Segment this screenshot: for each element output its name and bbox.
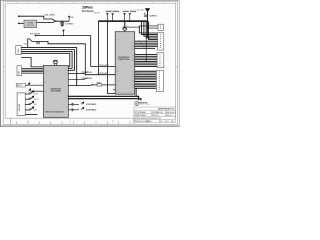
rail stub to mesh (146, 21, 148, 37)
title block cell label texts (134, 106, 157, 121)
ground (C1) (60, 25, 64, 27)
wires MCU to connector J7 (135, 71, 157, 88)
wires MCU to connector J6 (135, 55, 157, 67)
svg-text:PETH_RXD1: PETH_RXD1 (82, 78, 93, 80)
svg-text:SH 1: SH 1 (160, 121, 163, 123)
net MDC right segment into MCU (85, 74, 115, 76)
svg-text:PB1: PB1 (132, 57, 135, 59)
svg-text:MDIO: MDIO (65, 67, 68, 69)
power arrow VREF (128, 13, 131, 15)
label box (MAC addr) (16, 83, 25, 87)
net MDIO right segment into MCU (91, 66, 116, 68)
rail drop to MCU (124, 21, 126, 27)
svg-text:TXD1: TXD1 (116, 79, 119, 81)
power labels row (VBAT VREF) (123, 11, 129, 12)
svg-text:PC7: PC7 (132, 83, 135, 85)
connector J6 (157, 53, 164, 68)
title block value texts (135, 108, 175, 123)
title block table (134, 107, 176, 123)
top margin column ticks (17, 2, 176, 4)
JTAG connector J4 (17, 93, 25, 115)
screenshot edge shading (0, 0, 180, 2)
svg-text:EXPERT HW DESIGN: EXPERT HW DESIGN (139, 104, 151, 106)
svg-text:CONN: CONN (18, 48, 20, 54)
svg-text:REV 1.0: REV 1.0 (147, 121, 152, 123)
sheet background (0, 0, 180, 127)
connector J5 (158, 33, 164, 50)
svg-text:VCC3V3: VCC3V3 (137, 9, 143, 11)
inner border (5, 4, 175, 119)
power labels row (VDD VDDA) (106, 11, 112, 12)
svg-text:TXP: TXP (44, 69, 46, 71)
crystal Y1 above MCU (123, 27, 128, 32)
wire xtal net (19, 16, 69, 21)
svg-text:PC2: PC2 (132, 74, 135, 76)
outer border (3, 2, 177, 125)
svg-text:PC3: PC3 (132, 76, 135, 78)
staircase wire from J1 pin1 (28, 39, 86, 75)
U1 pin labels right column (131, 41, 134, 89)
junction node (62, 21, 63, 22)
svg-text:0.1UF/16V: 0.1UF/16V (65, 23, 74, 25)
svg-text:RXN: RXN (44, 74, 47, 76)
svg-text:PB3: PB3 (132, 60, 135, 62)
resistor R2 (strap series) (37, 42, 40, 44)
power arrow VBAT (123, 13, 126, 15)
svg-text:PC5: PC5 (132, 80, 135, 82)
connector J7 (156, 70, 163, 91)
svg-text:RXD1: RXD1 (116, 68, 119, 70)
power flag VCC (osc input) (18, 22, 20, 24)
svg-text:TXD0: TXD0 (116, 73, 119, 75)
mesh vertical feeders to connector J5 (139, 21, 157, 39)
svg-text:(Block Diagram): (Block Diagram) (82, 10, 94, 13)
U1 pin labels left column (116, 39, 120, 92)
svg-text:28PINS PROJECT V1.0: 28PINS PROJECT V1.0 (159, 108, 175, 110)
svg-text:LED1: LED1 (44, 82, 47, 84)
U2 pin labels right (65, 67, 68, 108)
power rail VCC3V3 (98, 20, 147, 22)
svg-text:MDC: MDC (65, 69, 68, 71)
PHY bottom stubs to RMII bus (68, 96, 70, 98)
bus wires from J1 (staircase down to PHY pins) (21, 48, 77, 86)
svg-text:OSC: OSC (116, 39, 119, 41)
wire from crystal bar to mesh (127, 26, 139, 28)
svg-text:OF 1: OF 1 (166, 121, 169, 123)
svg-text:VCC3V3: VCC3V3 (94, 13, 100, 15)
svg-text:VCC: VCC (24, 44, 27, 46)
svg-text:PB12: PB12 (116, 89, 119, 91)
oscillator X1 25MHz (24, 20, 37, 28)
net REFCLK with series resistor into MCU (91, 84, 93, 86)
arrow glyph on LED wire (28, 82, 30, 85)
inter-chip net RXD0 (left segment with jumper) (68, 72, 87, 74)
inter-chip net TXEN left segment (68, 84, 91, 86)
svg-text:TXEN: TXEN (116, 85, 119, 87)
wire J1 pin5 to PHY top-left (21, 58, 43, 67)
power flag (C2) (82, 102, 85, 105)
svg-text:TXN: TXN (44, 71, 46, 73)
svg-text:PC6: PC6 (132, 81, 135, 83)
side row ticks (3, 66, 5, 68)
RMII bus wire 1 (68, 96, 138, 100)
svg-text:PC1: PC1 (132, 73, 135, 75)
svg-text:PC4: PC4 (132, 78, 135, 80)
connector J2 (magnetics side) (17, 66, 22, 76)
U1 left pin stub PB12 (113, 89, 115, 91)
wires J2 to PHY (22, 69, 44, 74)
net flag left end (34, 35, 36, 37)
connector J1 (16, 46, 21, 55)
capacitor C1 (60, 21, 64, 25)
wire MAC box to PHY (25, 84, 43, 86)
svg-text:RXD0: RXD0 (116, 66, 119, 68)
svg-text:PC0: PC0 (132, 71, 135, 73)
svg-text:NRST: NRST (34, 104, 38, 106)
wires MCU to J5 lower pins (135, 41, 158, 48)
crystal Y2 above PHY (53, 60, 58, 65)
svg-text:25 MHZ: 25 MHZ (27, 23, 33, 25)
connector J8 (small top) (158, 24, 164, 30)
svg-text:SWDIO: SWDIO (34, 94, 38, 96)
bottom margin zone numerals (28, 120, 114, 124)
svg-text:PB2: PB2 (132, 58, 135, 60)
frame group placeholder (3, 2, 177, 125)
svg-text:PETH_RXD0: PETH_RXD0 (82, 72, 93, 74)
svg-text:PC8: PC8 (132, 85, 135, 87)
capacitor C4 (bulk) (144, 14, 147, 17)
JTAG pin wires with pull-up power flags (25, 90, 37, 114)
svg-text:LED2: LED2 (44, 91, 47, 93)
wires to J8 (139, 21, 158, 28)
power flag VCC (xtal net) (18, 15, 20, 17)
svg-text:REF: REF (65, 107, 68, 109)
FEDEVEL logo mark (135, 102, 138, 106)
rail drop left (97, 21, 99, 75)
svg-text:RXP: RXP (44, 72, 47, 74)
power flag (C3) (82, 107, 85, 110)
svg-text:2022-01-10: 2022-01-10 (152, 115, 159, 117)
supply drop to MCU bottom pins (107, 21, 115, 93)
vertical feeder crossing to J6 (145, 38, 147, 62)
capacitor C2 (PHY decoupling) (68, 103, 79, 106)
svg-text:OSC 2520: OSC 2520 (27, 25, 35, 27)
power arrow VDD (106, 13, 109, 15)
svg-text:SWD HDR: SWD HDR (19, 103, 21, 111)
capacitor C3 (PHY decoupling) (68, 108, 79, 111)
wire osc output with jumper (37, 21, 57, 23)
U2 pin labels left (44, 69, 47, 93)
RMII bus wire 2 (68, 99, 141, 101)
svg-text:PC9: PC9 (132, 86, 135, 88)
wire to PHY LED2 (31, 90, 44, 92)
inter-chip net RXD1 (left segment with jumper) (68, 78, 87, 80)
net flag up at node (68, 17, 70, 21)
power arrow VDDA (111, 13, 114, 15)
svg-text:10UF/25V: 10UF/25V (149, 16, 157, 18)
MCU U1 AT32F437 body (115, 32, 135, 94)
svg-text:28Pins: 28Pins (82, 5, 93, 9)
svg-text:TIME 10:25: TIME 10:25 (166, 115, 173, 117)
bottom margin column ticks (11, 118, 134, 124)
svg-text:SWCLK: SWCLK (34, 99, 39, 101)
power arrow mid (PHY supply) (62, 30, 65, 32)
PHY U2 LAN8720AI body (43, 66, 68, 118)
drop from J7 bus to RMII bus (135, 88, 137, 96)
wire strap net to PHY column (36, 36, 91, 67)
svg-text:PB0: PB0 (132, 55, 135, 57)
svg-text:SWO: SWO (34, 110, 37, 112)
big power arrow (input supply) (145, 8, 150, 12)
svg-text:CRSDV: CRSDV (116, 70, 120, 72)
arrow glyph on LED2 wire (29, 88, 31, 91)
